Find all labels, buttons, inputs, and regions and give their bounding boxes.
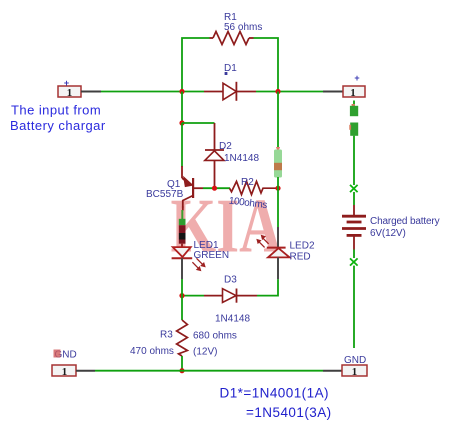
- resistor R3: [177, 320, 188, 356]
- wire to GND box right (dark): [323, 370, 342, 372]
- wire blocks to X1 (green): [353, 136, 355, 185]
- LED2 emission arrows: [257, 235, 269, 247]
- wire left vertical (green): [181, 92, 183, 124]
- wire bottom rail (green): [95, 370, 323, 372]
- junction base node: [212, 186, 217, 191]
- wire right vertical upper (green): [277, 92, 279, 151]
- wire LED2 to D3 corner (green): [257, 279, 278, 295]
- wire collector to resistor (green): [181, 210, 183, 220]
- svg-text:680 ohms: 680 ohms: [193, 331, 237, 342]
- resistor R2: [230, 181, 277, 194]
- junction main/left: [179, 89, 184, 94]
- connector 1 (+ battery, top-right): [343, 73, 365, 99]
- svg-text:470 ohms: 470 ohms: [130, 346, 174, 357]
- wire D2 branch horizontal (green): [182, 122, 215, 124]
- wire below battery connector (green stub): [353, 101, 355, 107]
- svg-text:6V(12V): 6V(12V): [370, 228, 406, 239]
- wire main rail right (green): [256, 91, 323, 93]
- svg-text:RED: RED: [290, 252, 311, 263]
- wire right vertical mid (green): [277, 177, 279, 227]
- svg-text:1N4148: 1N4148: [215, 314, 250, 325]
- svg-text:Battery chargar: Battery chargar: [10, 118, 106, 133]
- terminal block photo (lower): [349, 123, 358, 136]
- connector GND 1 (bottom-right): [342, 365, 367, 378]
- red mark on GND label: [54, 350, 61, 358]
- wire lead to right connector (dark): [323, 91, 343, 93]
- resistor photo (left, on wire): [179, 219, 186, 244]
- wire D2 branch vertical (maroon): [214, 123, 216, 150]
- wire main rail left (green): [101, 91, 204, 93]
- svg-text:=1N5401(3A): =1N5401(3A): [246, 405, 332, 420]
- svg-text:LED2: LED2: [290, 241, 315, 252]
- junction R2/right vertical: [275, 186, 280, 191]
- wire node to R3 (green): [181, 296, 183, 320]
- svg-text:+: +: [64, 78, 69, 88]
- diode D2: [205, 150, 224, 188]
- svg-text:56 ohms: 56 ohms: [224, 22, 262, 33]
- transistor Q1: [182, 166, 203, 208]
- wire GND lead (dark): [76, 370, 95, 372]
- LED1 emission arrows: [192, 258, 205, 271]
- label D1 asterisk: [225, 72, 228, 75]
- junction bottom rail: [179, 368, 184, 373]
- wire LED1 to node (green): [181, 279, 183, 296]
- LED2: [267, 248, 290, 258]
- X mark lower: [350, 258, 358, 265]
- diode D1: [204, 82, 256, 101]
- wire D3 to node (green): [182, 295, 204, 297]
- svg-text:BC557B: BC557B: [146, 189, 184, 200]
- wire top rail right (green): [254, 38, 279, 92]
- svg-text:R2: R2: [241, 177, 254, 188]
- wire X2 to GND (green): [353, 266, 355, 348]
- svg-text:1: 1: [352, 366, 358, 378]
- resistor photo (right, on wire): [274, 147, 282, 178]
- svg-text:1N4148: 1N4148: [224, 153, 259, 164]
- svg-text:1: 1: [350, 87, 356, 99]
- svg-text:1: 1: [62, 366, 68, 378]
- svg-text:D2: D2: [219, 141, 232, 152]
- svg-text:D3: D3: [224, 275, 237, 286]
- wire battery to X2 (maroon then green): [353, 235, 355, 249]
- svg-text:R3: R3: [160, 330, 173, 341]
- wire base to node (green): [203, 187, 230, 189]
- connector GND 1 (bottom-left): [52, 365, 76, 378]
- wire left vertical to Q1 (green): [181, 123, 183, 167]
- svg-text:(12V): (12V): [193, 347, 217, 358]
- connector 1 (+ input, top-left): [58, 78, 81, 99]
- wire R3 to bottom rail (green): [181, 356, 183, 371]
- svg-text:Charged battery: Charged battery: [370, 216, 440, 227]
- terminal block photo (upper): [350, 104, 358, 116]
- battery BT1: [342, 216, 366, 235]
- wire LED2 top lead (dark): [277, 227, 279, 248]
- X mark upper: [350, 185, 358, 192]
- svg-text:D1*=1N4001(1A): D1*=1N4001(1A): [220, 386, 330, 401]
- wire collector lead (maroon): [182, 207, 184, 211]
- resistor R1: [210, 32, 254, 45]
- wire top rail left (green): [182, 38, 210, 92]
- svg-text:GREEN: GREEN: [194, 250, 230, 261]
- junction D3/LED1/R3: [179, 293, 184, 298]
- svg-text:GND: GND: [344, 355, 366, 366]
- junction D2 branch: [179, 120, 184, 125]
- wire LED1 bottom lead (dark): [181, 258, 183, 279]
- LED1: [172, 244, 193, 259]
- svg-text:+: +: [354, 73, 359, 83]
- svg-text:1: 1: [67, 87, 73, 99]
- wire connector lead (dark): [81, 91, 101, 93]
- wire X1 to battery (green then maroon): [353, 192, 355, 205]
- diode D3: [204, 289, 257, 303]
- svg-text:The input from: The input from: [11, 103, 101, 118]
- junction main/right: [275, 89, 280, 94]
- wire LED2 bottom lead (dark): [277, 257, 279, 279]
